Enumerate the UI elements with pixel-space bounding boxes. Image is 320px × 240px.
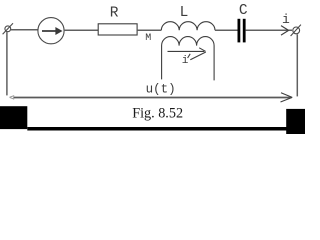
wire: current source to resistor — [64, 29, 98, 31]
svg-text:i: i — [282, 12, 290, 27]
wire: inductor to capacitor — [215, 29, 238, 31]
wire: capacitor to right terminal — [246, 29, 292, 31]
voltage arrow left head — [10, 96, 15, 100]
wire: left terminal to current source — [11, 29, 39, 31]
inductor L (primary coil, 3 humps) — [161, 22, 215, 31]
svg-text:u(t): u(t) — [146, 82, 176, 96]
svg-text:i: i — [182, 55, 189, 67]
terminal right (output port) — [291, 25, 301, 36]
wire: left vertical drop — [6, 32, 8, 95]
current source arrow — [42, 28, 62, 35]
scan artifact: bottom black bar — [27, 127, 288, 131]
arrow i' (secondary current) — [168, 48, 206, 60]
svg-text:C: C — [239, 3, 248, 19]
voltage arrow right head — [281, 93, 293, 102]
scan artifact: bottom-left black square — [0, 106, 27, 129]
wire: resistor to inductor — [137, 29, 161, 31]
capacitor C plates — [239, 19, 244, 43]
voltage arrow u(t): bottom line — [13, 97, 291, 99]
secondary coil (3 humps with side leads) — [162, 37, 215, 81]
current source circle — [38, 18, 64, 44]
svg-text:M: M — [145, 33, 151, 44]
svg-text:L: L — [180, 5, 189, 21]
scan artifact: bottom-right black square — [286, 109, 305, 134]
resistor R body — [98, 24, 137, 35]
svg-text:Fig. 8.52: Fig. 8.52 — [132, 105, 183, 121]
current arrow i (on output wire) — [281, 26, 289, 35]
svg-text:R: R — [110, 5, 119, 21]
terminal left (input port) — [3, 23, 13, 34]
wire: right vertical drop — [296, 34, 298, 96]
